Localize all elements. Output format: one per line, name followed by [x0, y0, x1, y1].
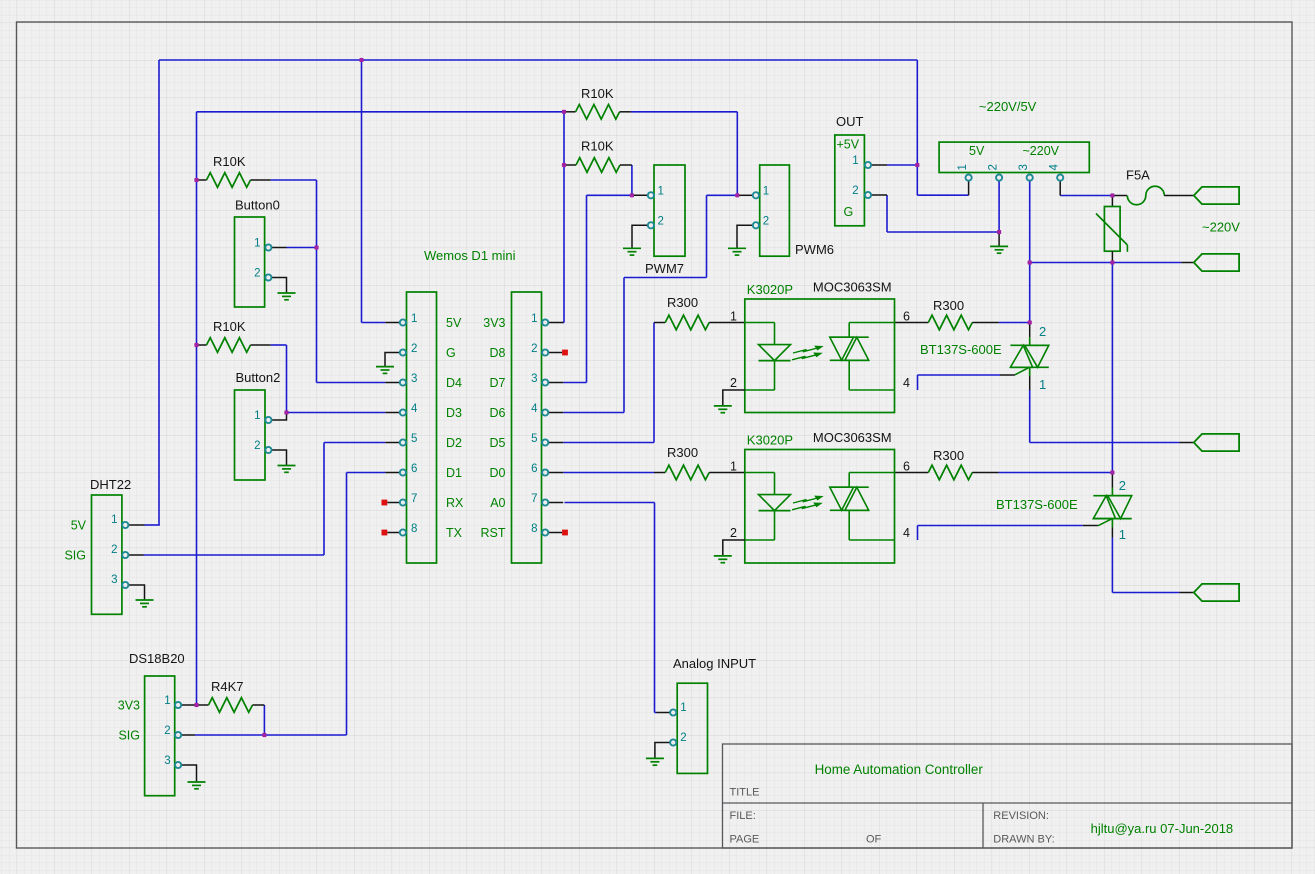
svg-text:2: 2 [111, 544, 117, 556]
svg-text:D5: D5 [490, 436, 506, 450]
svg-text:1: 1 [254, 410, 260, 422]
svg-text:R10K: R10K [213, 154, 246, 169]
svg-text:3: 3 [531, 373, 537, 385]
resistor R10K pullup Button2 [197, 319, 271, 352]
svg-text:D1: D1 [446, 466, 462, 480]
svg-text:~220V: ~220V [1202, 220, 1240, 235]
ground opto U2 pin2 [714, 540, 745, 563]
resistor R300 opto U2 output [895, 448, 999, 480]
svg-text:7: 7 [411, 493, 417, 505]
svg-text:PWM7: PWM7 [645, 261, 684, 276]
wire PSU pin4 to fuse junction [1060, 195, 1112, 197]
svg-text:3: 3 [164, 755, 170, 767]
wire Wemos D0 pin6 to R300 R8 [563, 472, 654, 474]
svg-text:6: 6 [411, 463, 417, 475]
svg-text:G: G [844, 205, 854, 219]
svg-text:RST: RST [481, 526, 506, 540]
svg-text:D3: D3 [446, 406, 462, 420]
svg-text:R4K7: R4K7 [211, 679, 244, 694]
svg-text:A0: A0 [490, 496, 505, 510]
svg-text:D6: D6 [490, 406, 506, 420]
ground Button0 pin2 [272, 278, 296, 300]
svg-text:hjltu@ya.ru 07-Jun-2018: hjltu@ya.ru 07-Jun-2018 [1091, 821, 1234, 836]
wire 5V rail right drop to OUT pin1 [887, 60, 918, 195]
connector Wemos D1 mini left half [400, 292, 437, 563]
wire stub Analog INPUT pin1 [657, 712, 671, 714]
svg-text:R300: R300 [667, 295, 698, 310]
svg-text:D4: D4 [446, 376, 462, 390]
svg-text:OF: OF [866, 833, 882, 845]
wire R10K R3 output to Wemos D3 pin4 [271, 345, 386, 413]
wire stub PSU pin4 [1059, 181, 1061, 196]
svg-text:4: 4 [531, 403, 538, 415]
svg-text:8: 8 [531, 523, 537, 535]
svg-text:Analog INPUT: Analog INPUT [673, 656, 756, 671]
no-connect marker Wemos RX [382, 500, 388, 506]
svg-text:1: 1 [852, 155, 858, 167]
fuse F5A [1112, 168, 1193, 205]
svg-text:PWM6: PWM6 [795, 242, 834, 257]
wire flag2 lead [1181, 262, 1194, 264]
svg-text:OUT: OUT [836, 114, 864, 129]
svg-text:+5V: +5V [837, 138, 860, 152]
svg-text:Button0: Button0 [235, 198, 280, 213]
resistor R300 opto U1 output [895, 298, 999, 330]
svg-text:1: 1 [730, 310, 737, 324]
connector PWM7 [645, 165, 685, 276]
label BT137S-600E Q2 [996, 497, 1078, 512]
svg-text:DS18B20: DS18B20 [129, 651, 185, 666]
connector Button0 [235, 198, 280, 308]
label BT137S-600E Q1 [920, 342, 1002, 357]
wire stub PWM6 pin1 [737, 194, 753, 196]
svg-text:BT137S-600E: BT137S-600E [920, 342, 1002, 357]
ground Wemos pin2 G [376, 353, 400, 374]
svg-text:D2: D2 [446, 436, 462, 450]
ground Analog INPUT pin2 [646, 743, 670, 766]
svg-text:5: 5 [411, 433, 417, 445]
label MOC3063SM U2 [813, 430, 892, 445]
svg-text:1: 1 [411, 313, 417, 325]
ground DS18B20 pin3 [181, 765, 205, 789]
connector Wemos D1 mini right half [512, 292, 549, 563]
svg-text:1: 1 [658, 186, 664, 198]
net flag load 1 [1194, 434, 1239, 451]
svg-text:SIG: SIG [118, 729, 140, 743]
svg-text:3: 3 [111, 574, 117, 586]
wire opto U2 pin4 to triac Q2 gate [918, 526, 1083, 541]
svg-text:TX: TX [446, 526, 463, 540]
svg-text:1: 1 [1119, 527, 1126, 542]
svg-text:R10K: R10K [581, 86, 614, 101]
svg-text:3V3: 3V3 [483, 316, 505, 330]
connector OUT [835, 114, 871, 226]
title block [723, 744, 1293, 848]
svg-text:2: 2 [531, 343, 537, 355]
label K3020P U1 [747, 282, 793, 297]
resistor R10K pullup Button0 [197, 154, 271, 187]
resistor R300 opto U2 input [654, 445, 745, 480]
svg-text:5V: 5V [71, 519, 87, 533]
triac Q1 BT137S-600E [1000, 323, 1049, 393]
pin labels Wemos right 3V3 D8 D7 D6 D5 D0 A0 RST [481, 316, 506, 540]
wire R10K R2 output to Wemos D4 pin3 [271, 180, 386, 383]
svg-text:DHT22: DHT22 [90, 477, 131, 492]
wire OUT pin2 ground net [887, 195, 999, 232]
svg-text:~220V: ~220V [1023, 144, 1060, 158]
svg-text:1: 1 [111, 514, 117, 526]
svg-text:6: 6 [903, 310, 910, 324]
ground DHT22 pin3 [129, 585, 154, 607]
svg-text:DRAWN BY:: DRAWN BY: [993, 833, 1054, 845]
svg-text:2: 2 [730, 376, 737, 390]
op-amp U2 optocoupler K3020P MOC3063SM [730, 450, 910, 564]
no-connect marker Wemos D8 [562, 350, 568, 356]
wire Button0 pin1 to D4 net [287, 247, 317, 249]
wire triac Q1 anode to flag 3 [1030, 390, 1180, 443]
svg-text:MOC3063SM: MOC3063SM [813, 280, 892, 295]
svg-text:PAGE: PAGE [730, 833, 760, 845]
svg-text:2: 2 [254, 440, 260, 452]
ground opto U1 pin2 [714, 390, 745, 413]
svg-text:4: 4 [903, 526, 910, 540]
svg-text:FILE:: FILE: [730, 810, 756, 822]
wire 3V3 right vertical to Wemos 3V3 pin [563, 112, 564, 323]
svg-text:1: 1 [763, 186, 769, 198]
wire stubs OUT J3 [871, 165, 887, 195]
svg-text:1: 1 [680, 702, 686, 714]
svg-text:1: 1 [531, 313, 537, 325]
wire Wemos A0 pin7 to Analog INPUT pin1 [565, 503, 657, 713]
wire R10K R5 junction to PWM7 pin1 and Wemos D7 [563, 165, 632, 383]
wire pin stubs Wemos right connector [548, 323, 563, 533]
svg-text:D7: D7 [490, 376, 506, 390]
wire stub PWM7 pin1 [632, 194, 648, 196]
svg-text:Button2: Button2 [236, 370, 281, 385]
connector DS18B20 [118, 651, 185, 796]
net flag mains live [1194, 187, 1239, 204]
svg-text:RX: RX [446, 496, 464, 510]
wire 3V3 horizontal top [197, 111, 565, 113]
ground PWM6 pin2 [728, 225, 753, 255]
svg-text:2: 2 [1119, 478, 1126, 493]
svg-text:8: 8 [411, 523, 417, 535]
label MOC3063SM U1 [813, 280, 892, 295]
svg-text:2: 2 [658, 216, 664, 228]
svg-text:1: 1 [164, 695, 170, 707]
ground Button2 pin2 [272, 450, 296, 472]
wire +5V top rail [159, 59, 917, 61]
svg-text:K3020P: K3020P [747, 282, 793, 297]
wire 3V3 left vertical to DS18B20 pin1 [196, 112, 198, 705]
svg-text:K3020P: K3020P [747, 433, 793, 448]
op-amp U1 optocoupler K3020P MOC3063SM [730, 299, 910, 413]
svg-text:6: 6 [903, 460, 910, 474]
resistor R4K7 onewire pullup [197, 679, 265, 712]
svg-text:7: 7 [531, 493, 537, 505]
svg-text:2: 2 [680, 732, 686, 744]
wire mains return row to flag 2 [1030, 262, 1182, 264]
resistor R300 opto U1 input [654, 295, 745, 330]
svg-text:Home Automation Controller: Home Automation Controller [815, 762, 984, 777]
wire DHT22 pin1 to 5V rail vertical [145, 60, 160, 525]
svg-text:2: 2 [852, 185, 858, 197]
svg-text:2: 2 [254, 268, 260, 280]
wire triac Q2 anode to flag 4 [1112, 538, 1179, 593]
svg-text:D8: D8 [490, 346, 506, 360]
svg-text:Wemos D1 mini: Wemos D1 mini [424, 248, 516, 263]
svg-text:D0: D0 [490, 466, 506, 480]
connector PSU 5V 220V [939, 142, 1089, 181]
svg-text:5V: 5V [446, 316, 462, 330]
wire stub Button0 pin1 [272, 247, 287, 249]
svg-text:5V: 5V [969, 144, 985, 158]
label ~220V/5V [979, 99, 1037, 114]
svg-text:1: 1 [254, 238, 260, 250]
svg-text:4: 4 [411, 403, 418, 415]
svg-text:2: 2 [763, 216, 769, 228]
svg-text:2: 2 [1039, 324, 1046, 339]
svg-text:2: 2 [164, 725, 170, 737]
resistor R10K pullup PWM6 [564, 86, 631, 119]
wire stubs DS18B20 J2 [181, 705, 196, 735]
svg-text:3: 3 [411, 373, 417, 385]
wire flag4 lead [1179, 592, 1194, 594]
svg-text:3: 3 [1018, 164, 1030, 170]
svg-text:6: 6 [531, 463, 537, 475]
svg-text:1: 1 [957, 164, 969, 170]
ground PSU pin2 net [990, 232, 1008, 253]
svg-text:TITLE: TITLE [730, 787, 760, 799]
svg-text:1: 1 [730, 460, 737, 474]
resistor R10K pullup PWM7 [564, 139, 632, 173]
wire mains return vertical to triac Q2 [1111, 263, 1113, 473]
wire R300 R9 to triac Q2 top [999, 472, 1113, 474]
wire PSU pin2 down to ground junction [998, 181, 1000, 232]
svg-text:2: 2 [730, 526, 737, 540]
wire DS18B20 SIG to Wemos D1 pin6 [195, 473, 385, 736]
svg-text:SIG: SIG [64, 549, 86, 563]
wire R10K R1 to Wemos pin1 5V net [362, 60, 386, 323]
triac Q2 BT137S-600E [1083, 473, 1132, 543]
wire R300 R7 to triac Q1 top [999, 322, 1030, 324]
svg-text:BT137S-600E: BT137S-600E [996, 497, 1078, 512]
svg-text:MOC3063SM: MOC3063SM [813, 430, 892, 445]
net flag mains neutral [1194, 254, 1239, 271]
wire stub Button2 pin1 [272, 413, 287, 421]
svg-text:2: 2 [411, 343, 417, 355]
wire stubs DHT22 J1 [129, 525, 145, 555]
svg-text:5: 5 [531, 433, 537, 445]
label ~220V right [1202, 220, 1240, 235]
no-connect marker Wemos TX [382, 530, 388, 536]
wire R4K7 right lead down to SIG net [263, 705, 265, 735]
svg-text:R10K: R10K [213, 319, 246, 334]
wire Wemos D6 pin4 to PWM6 pin1 net [563, 195, 706, 412]
label Wemos D1 mini [424, 248, 516, 263]
ground PWM7 pin2 [623, 225, 648, 255]
svg-text:~220V/5V: ~220V/5V [979, 99, 1037, 114]
wire DHT22 SIG to Wemos D2 pin5 [144, 443, 386, 556]
svg-text:REVISION:: REVISION: [993, 810, 1049, 822]
svg-text:G: G [446, 346, 456, 360]
svg-text:2: 2 [988, 164, 1000, 170]
no-connect marker Wemos RST [562, 530, 568, 536]
wire Wemos D5 pin5 to R300 R6 [563, 323, 654, 443]
connector Button2 [235, 370, 281, 480]
svg-text:R10K: R10K [581, 139, 614, 154]
connector PWM6 [753, 165, 834, 257]
svg-text:F5A: F5A [1126, 168, 1150, 183]
wire opto U1 pin4 to triac Q1 gate [918, 375, 1001, 390]
svg-text:4: 4 [1049, 164, 1061, 171]
wire stub PSU pin1 [968, 181, 970, 196]
svg-text:R300: R300 [933, 298, 964, 313]
connector DHT22 [64, 477, 131, 614]
svg-text:R300: R300 [667, 445, 698, 460]
connector Analog INPUT [670, 656, 756, 773]
pin labels Wemos left 5V G D4 D3 D2 D1 RX TX [446, 316, 464, 540]
svg-text:1: 1 [1039, 377, 1046, 392]
wire OUT pin1 row to PSU connector pin1 [917, 194, 968, 196]
wire flag3 lead [1179, 442, 1194, 444]
svg-text:3V3: 3V3 [118, 699, 140, 713]
label K3020P U2 [747, 433, 793, 448]
wire PSU pin3 down to triac Q1 net [1029, 181, 1031, 323]
svg-text:4: 4 [903, 376, 910, 390]
svg-text:R300: R300 [933, 448, 964, 463]
wire pin stubs Wemos left connector [385, 323, 400, 533]
net flag load 2 [1194, 584, 1239, 601]
wire R10K R4 to PWM6 pin1 [631, 112, 737, 196]
varistor RV1 [1096, 196, 1127, 263]
